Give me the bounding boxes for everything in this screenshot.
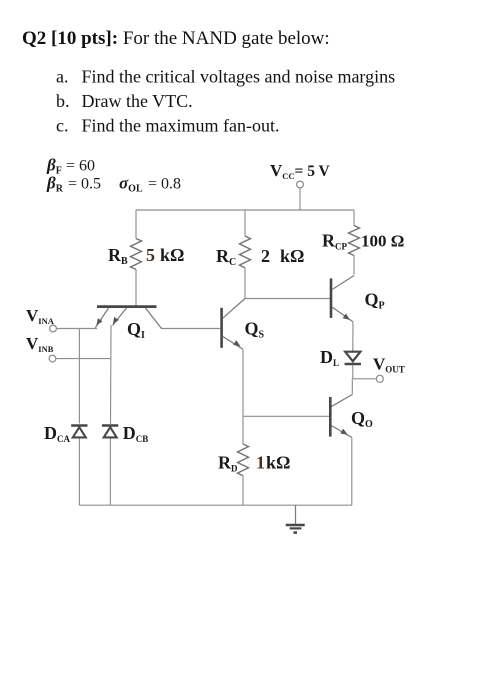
svg-text:a.: a. bbox=[56, 67, 69, 87]
wire DCB to ground rail bbox=[109, 439, 111, 506]
svg-text:b.: b. bbox=[56, 91, 70, 111]
svg-text:kΩ: kΩ bbox=[160, 245, 184, 265]
svg-text:βR: βR bbox=[46, 174, 64, 195]
wire RC top lead bbox=[244, 210, 246, 236]
svg-text:Draw the VTC.: Draw the VTC. bbox=[82, 91, 193, 111]
resistor RB bbox=[131, 239, 142, 270]
diode DCB bbox=[102, 426, 118, 438]
transistor QI base bar bbox=[97, 305, 157, 308]
input terminal VINB bbox=[49, 355, 56, 362]
wire RB bottom lead bbox=[135, 269, 137, 305]
svg-text:Find the maximum fan-out.: Find the maximum fan-out. bbox=[82, 116, 280, 136]
wire input B down to DCB bbox=[110, 325, 113, 424]
VCC terminal bbox=[297, 181, 304, 188]
title bbox=[22, 28, 330, 49]
parameter beta_F value label bbox=[46, 156, 95, 177]
wire top rail bbox=[136, 209, 354, 211]
svg-text:σOL: σOL bbox=[119, 174, 143, 195]
svg-text:= 0.5: = 0.5 bbox=[68, 176, 101, 193]
svg-text:RC: RC bbox=[216, 246, 236, 268]
svg-text:DCB: DCB bbox=[123, 423, 149, 444]
output terminal VOUT bbox=[376, 375, 383, 382]
wire ground rail bbox=[79, 504, 351, 506]
wire QS emitter vertical bbox=[242, 350, 244, 445]
svg-text:100 Ω: 100 Ω bbox=[361, 232, 404, 251]
transistor QS emitter bbox=[223, 336, 243, 349]
svg-text:RD: RD bbox=[218, 453, 238, 474]
svg-text:QI: QI bbox=[127, 319, 145, 341]
parameter beta_R value label bbox=[46, 174, 101, 195]
wire QS emitter node to QO base bbox=[243, 415, 329, 417]
wire RD bottom lead bbox=[242, 476, 244, 506]
transistor QI emitter B bbox=[113, 308, 127, 326]
svg-text:QO: QO bbox=[351, 408, 373, 430]
resistor RCP bbox=[349, 226, 360, 256]
transistor QO base bar bbox=[329, 397, 332, 437]
wire VINA to emitter A bbox=[56, 328, 97, 330]
svg-text:1: 1 bbox=[256, 453, 265, 473]
transistor QO collector bbox=[331, 395, 352, 407]
svg-text:= 60: = 60 bbox=[66, 158, 95, 175]
wire VOUT node down to QO collector bbox=[351, 379, 353, 395]
svg-text:VCC: VCC bbox=[270, 161, 295, 181]
wire DL to VOUT node bbox=[352, 365, 354, 379]
ground bbox=[286, 505, 305, 532]
svg-text:DL: DL bbox=[320, 347, 339, 368]
svg-text:DCA: DCA bbox=[44, 423, 70, 444]
svg-text:QS: QS bbox=[245, 319, 265, 341]
svg-text:= 0.8: = 0.8 bbox=[148, 176, 181, 193]
transistor QP base bar bbox=[330, 278, 333, 318]
svg-text:= 5 V: = 5 V bbox=[295, 163, 331, 180]
parameter sigma_OL value label bbox=[119, 174, 181, 195]
transistor QP emitter bbox=[332, 307, 353, 322]
wire RC node to QP base bbox=[245, 298, 330, 300]
svg-text:Q2 [10 pts]: For the NAND gate: Q2 [10 pts]: For the NAND gate below: bbox=[22, 28, 330, 49]
transistor QP collector bbox=[332, 276, 354, 290]
resistor RC bbox=[240, 236, 251, 268]
wire RCP bottom lead bbox=[353, 256, 355, 275]
diode DL bbox=[345, 352, 361, 364]
wire RB top lead bbox=[135, 210, 137, 239]
resistor RD bbox=[238, 444, 249, 476]
wire RCP top lead bbox=[353, 210, 355, 226]
svg-text:5: 5 bbox=[146, 245, 155, 265]
svg-text:kΩ: kΩ bbox=[280, 246, 304, 266]
svg-text:RCP: RCP bbox=[322, 231, 347, 252]
svg-text:kΩ: kΩ bbox=[266, 453, 290, 473]
svg-text:VINB: VINB bbox=[26, 334, 54, 354]
wire QP emitter to DL bbox=[352, 322, 354, 352]
wire input A down to DCA bbox=[78, 329, 80, 424]
transistor QS collector bbox=[223, 299, 245, 319]
list item b bbox=[56, 91, 193, 111]
wire VOUT branch bbox=[353, 378, 377, 380]
wire DCA to ground rail bbox=[78, 439, 80, 506]
svg-text:VOUT: VOUT bbox=[373, 355, 405, 375]
transistor QO emitter bbox=[331, 426, 352, 438]
svg-text:VINA: VINA bbox=[26, 306, 55, 326]
transistor QS base bar bbox=[220, 308, 223, 348]
wire QO emitter down to ground rail bbox=[351, 437, 353, 505]
svg-text:QP: QP bbox=[365, 290, 385, 312]
transistor QI collector bbox=[146, 308, 162, 329]
wire RC bottom lead bbox=[244, 268, 246, 299]
svg-text:c.: c. bbox=[56, 116, 69, 136]
wire QI collector to QS base bbox=[161, 328, 220, 330]
wire VINB to emitter B line bbox=[56, 358, 111, 360]
list item c bbox=[56, 116, 279, 136]
svg-text:2: 2 bbox=[261, 246, 270, 266]
diode DCA bbox=[71, 426, 87, 438]
svg-text:RB: RB bbox=[108, 245, 128, 267]
wire VCC stub bbox=[299, 188, 301, 210]
node VCC label bbox=[270, 161, 331, 181]
input terminal VINA bbox=[50, 325, 57, 332]
svg-text:Find the critical voltages and: Find the critical voltages and noise mar… bbox=[82, 67, 396, 87]
list item a bbox=[56, 67, 395, 87]
transistor QI emitter A bbox=[95, 308, 108, 328]
